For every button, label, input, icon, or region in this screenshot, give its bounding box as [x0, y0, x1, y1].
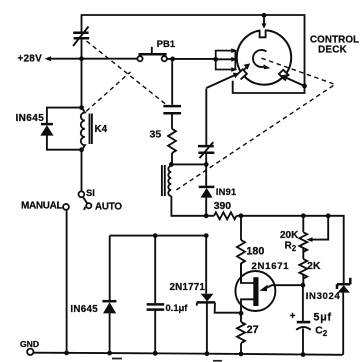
wire transformer bottom — [171, 196, 214, 216]
dashed mechanical link gang line — [87, 41, 169, 106]
node junction — [204, 162, 209, 167]
node junction — [239, 213, 244, 218]
node junction — [205, 351, 210, 356]
node junction — [239, 352, 244, 357]
resistor 180 — [237, 216, 245, 283]
diode IN91 — [199, 187, 215, 198]
potentiometer 20K R2 — [299, 216, 328, 259]
motor top arrow — [262, 15, 267, 28]
top notch — [260, 28, 266, 36]
svg-text:+: + — [290, 311, 296, 322]
diode IN645 (upper) — [40, 124, 53, 136]
wire transformer top link — [171, 163, 206, 165]
motor rotor rotation arrow — [253, 50, 270, 69]
dashed mechanical link motor — [174, 58, 335, 191]
wire cap35 branch drop — [171, 59, 173, 105]
left linkage arrow into notch — [206, 63, 250, 88]
svg-text:20K: 20K — [280, 230, 299, 241]
node junction — [169, 162, 174, 167]
bottom-left notch — [236, 69, 247, 80]
svg-text:IN91: IN91 — [216, 187, 236, 197]
node junction emitter — [301, 283, 306, 288]
node junction — [301, 213, 306, 218]
node junction — [79, 147, 84, 152]
wire +28V feed — [50, 58, 138, 60]
artifact mark — [213, 360, 222, 362]
node junction B1 — [239, 311, 244, 316]
svg-text:35: 35 — [150, 129, 162, 141]
svg-text:IN645: IN645 — [16, 113, 45, 124]
node junction — [204, 213, 209, 218]
svg-text:GND: GND — [20, 339, 39, 349]
node junction — [79, 56, 84, 61]
capacitor 0.1uf — [147, 236, 165, 354]
node junction — [107, 351, 112, 356]
svg-text:180: 180 — [246, 245, 264, 257]
resistor 27 — [237, 313, 245, 354]
svg-text:DECK: DECK — [318, 44, 347, 55]
node junction — [326, 213, 331, 218]
svg-text:2N1771: 2N1771 — [170, 282, 206, 293]
GND terminal — [27, 349, 33, 355]
resistor 35 — [168, 129, 176, 153]
node junction — [301, 352, 306, 357]
wire mid bus right — [237, 216, 344, 283]
svg-text:+28V: +28V — [18, 54, 43, 65]
node junction — [170, 57, 175, 62]
node junction top — [262, 13, 267, 18]
wire trimmer3 branch vertical — [205, 89, 207, 186]
zener diode IN3024 — [337, 278, 350, 355]
svg-text:5μf: 5μf — [314, 312, 332, 324]
wire MANUAL down — [66, 210, 68, 353]
tunnel diode 2N1771 — [197, 236, 241, 354]
svg-text:IN3024: IN3024 — [306, 291, 341, 302]
node junction — [79, 105, 84, 110]
svg-text:MANUAL: MANUAL — [21, 201, 62, 212]
wire left vertical lower — [81, 150, 83, 192]
transformer winding with core — [162, 165, 171, 196]
bottom-right notch — [279, 70, 290, 81]
variable capacitor trimmer C1 — [73, 27, 89, 47]
motor control deck body — [236, 28, 291, 84]
node junction — [153, 351, 158, 356]
node junction — [153, 233, 158, 238]
svg-text:390: 390 — [214, 201, 232, 212]
svg-text:PB1: PB1 — [157, 38, 175, 49]
transistor 2N1671 UJT — [235, 263, 303, 313]
wire — [205, 198, 207, 216]
switch S1 — [79, 191, 92, 209]
svg-text:IN645: IN645 — [70, 304, 98, 315]
relay coil K4 — [81, 108, 92, 150]
node junction — [64, 351, 69, 356]
capacitor C2 5uf — [296, 285, 310, 354]
svg-text:SI: SI — [86, 188, 95, 198]
right linkage arrow into notch — [280, 74, 304, 86]
wire — [170, 153, 173, 166]
svg-text:2N1671: 2N1671 — [252, 261, 290, 272]
wire — [171, 114, 173, 128]
diode IN645 lower branch — [102, 236, 116, 354]
artifact mark — [112, 358, 122, 360]
resistor 2K — [299, 259, 307, 285]
resistor 390 — [214, 212, 237, 219]
dashed mechanical link K4 — [86, 72, 130, 111]
wire W lower link — [110, 235, 207, 237]
connector plug 3-arrow — [216, 48, 238, 72]
svg-text:27: 27 — [247, 324, 259, 336]
wire PB1 to connector — [167, 58, 216, 60]
wire top bus — [82, 15, 305, 93]
node junction — [213, 57, 218, 62]
svg-text:K4: K4 — [95, 124, 108, 135]
capacitor 35-branch series cap — [163, 106, 181, 113]
wire bottom rail — [34, 353, 343, 355]
diode IN645 upper branch wire — [47, 108, 82, 150]
+28V arrow — [45, 56, 51, 61]
node junction — [204, 233, 209, 238]
MANUAL terminal — [63, 204, 69, 210]
node junction right — [302, 84, 307, 89]
svg-text:0.1μf: 0.1μf — [166, 302, 189, 313]
wire left vertical upper — [81, 14, 83, 107]
pushbutton PB1 — [137, 47, 167, 62]
svg-text:AUTO: AUTO — [95, 202, 122, 213]
variable capacitor trimmer C3 — [198, 142, 215, 158]
svg-text:2K: 2K — [307, 260, 321, 272]
